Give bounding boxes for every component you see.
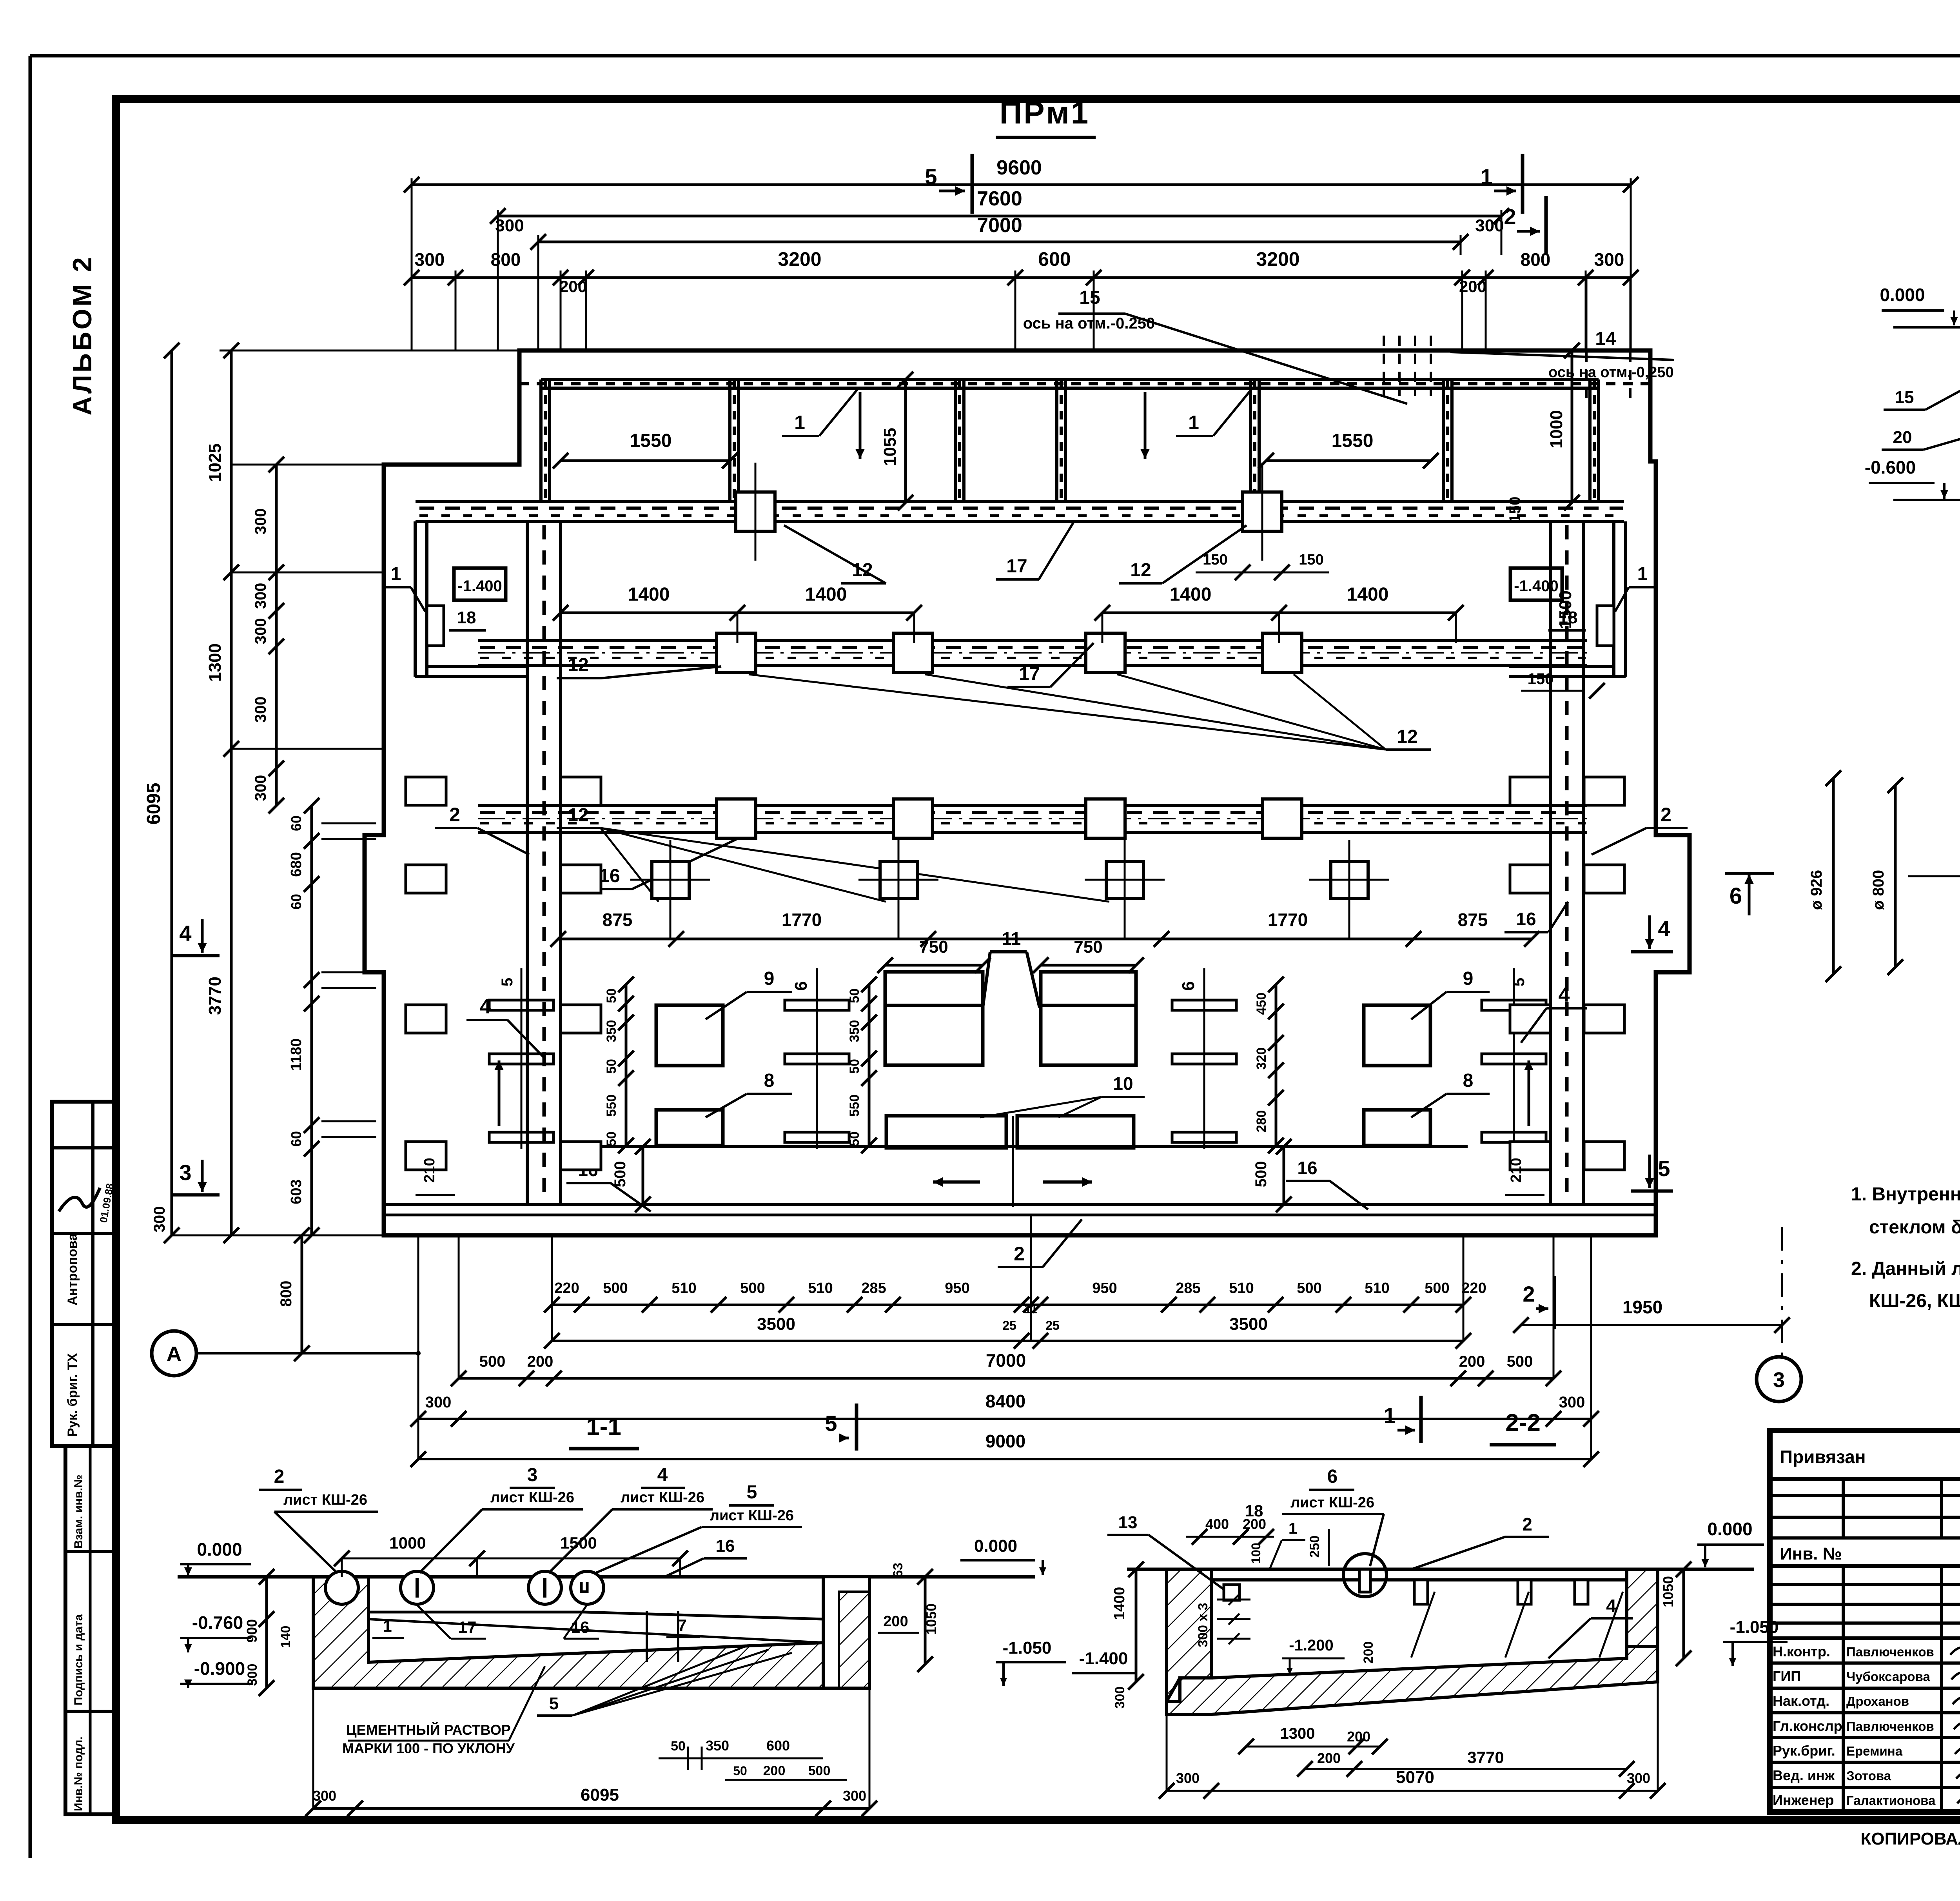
sec22 top slab xyxy=(1211,1578,1627,1581)
pit 10 right xyxy=(1017,1116,1134,1148)
svg-text:950: 950 xyxy=(945,1280,969,1296)
svg-text:320: 320 xyxy=(1254,1048,1269,1070)
bottom arrows xyxy=(933,1180,980,1184)
svg-text:600: 600 xyxy=(1038,248,1071,270)
svg-text:285: 285 xyxy=(861,1280,886,1296)
svg-text:0.000: 0.000 xyxy=(197,1539,242,1560)
right outer pilaster 1 xyxy=(1584,777,1624,805)
axis circle A xyxy=(152,1331,196,1376)
svg-text:КШ-26, КШ-27.: КШ-26, КШ-27. xyxy=(1869,1291,1960,1311)
svg-text:200: 200 xyxy=(527,1353,554,1370)
svg-text:300: 300 xyxy=(1559,1394,1585,1411)
axis dashed lines group 14 xyxy=(1586,279,1588,352)
title row inv xyxy=(1770,1564,1960,1568)
axis circle 3 xyxy=(1757,1357,1801,1402)
svg-text:800: 800 xyxy=(491,249,521,270)
sec66 top ext lines xyxy=(1893,326,1960,329)
svg-text:1770: 1770 xyxy=(782,910,822,930)
sec11 pipe circle 4 xyxy=(571,1571,604,1604)
svg-text:1500: 1500 xyxy=(560,1534,597,1552)
svg-text:500: 500 xyxy=(740,1280,765,1296)
svg-text:300: 300 xyxy=(151,1206,168,1233)
left stamp lower box xyxy=(65,1446,116,1814)
sec22 left wall xyxy=(1167,1569,1211,1701)
svg-text:1: 1 xyxy=(1383,1403,1396,1428)
dim 750 left xyxy=(885,964,983,967)
svg-text:Зотова: Зотова xyxy=(1846,1768,1891,1783)
svg-text:50: 50 xyxy=(604,1131,619,1146)
svg-text:Рук. бриг. ТХ: Рук. бриг. ТХ xyxy=(65,1353,80,1437)
svg-text:ГИП: ГИП xyxy=(1773,1668,1801,1684)
right outer pilaster 3 xyxy=(1584,1005,1624,1033)
bottom row 9000 xyxy=(418,1458,1591,1460)
svg-text:100: 100 xyxy=(1249,1543,1263,1563)
title row privyazan xyxy=(1770,1477,1960,1481)
svg-text:2: 2 xyxy=(1661,804,1671,826)
right outer pilaster 2 xyxy=(1584,865,1624,893)
svg-text:Инженер: Инженер xyxy=(1773,1792,1834,1808)
svg-text:900: 900 xyxy=(244,1619,260,1643)
title name row Рук.бриг. xyxy=(1770,1761,1960,1764)
svg-text:7000: 7000 xyxy=(986,1350,1026,1371)
title table outer xyxy=(1770,1431,1960,1812)
svg-text:50: 50 xyxy=(733,1764,747,1778)
svg-text:150: 150 xyxy=(1299,552,1323,568)
svg-text:200: 200 xyxy=(1361,1641,1376,1664)
bay top wall lines xyxy=(541,378,1599,381)
svg-text:300: 300 xyxy=(252,697,269,723)
svg-text:875: 875 xyxy=(1458,910,1488,930)
pit dim chain right xyxy=(1275,984,1278,1146)
dim 7000 xyxy=(538,241,1461,243)
svg-text:200: 200 xyxy=(1459,1353,1485,1370)
svg-text:20: 20 xyxy=(1893,428,1912,447)
svg-text:17: 17 xyxy=(1019,664,1040,685)
svg-text:1400: 1400 xyxy=(628,584,670,605)
bay wall vertical 7 xyxy=(1588,379,1592,503)
title thin rows b xyxy=(1770,1583,1960,1586)
svg-text:Нак.отд.: Нак.отд. xyxy=(1773,1693,1829,1709)
axis dashed lines group 15 xyxy=(1383,336,1385,396)
dim 875-1770 row xyxy=(558,938,1532,941)
svg-text:6: 6 xyxy=(1179,981,1198,991)
dim 1950 xyxy=(1521,1324,1782,1326)
svg-text:280: 280 xyxy=(1254,1110,1269,1133)
svg-text:1000: 1000 xyxy=(389,1534,426,1552)
svg-text:Еремина: Еремина xyxy=(1846,1744,1903,1758)
svg-text:5: 5 xyxy=(747,1482,757,1503)
svg-text:603: 603 xyxy=(288,1179,305,1204)
svg-text:4: 4 xyxy=(179,921,191,946)
left outer pilaster 2 xyxy=(406,865,446,893)
svg-text:1000: 1000 xyxy=(1547,410,1566,448)
svg-text:1: 1 xyxy=(391,564,401,585)
svg-text:11: 11 xyxy=(1002,928,1021,949)
fom8 crosshair xyxy=(1908,875,1960,877)
dim 750 right xyxy=(1041,964,1136,967)
sec11 pipe circle 1 xyxy=(325,1571,358,1604)
svg-text:300: 300 xyxy=(1112,1687,1127,1709)
svg-text:200: 200 xyxy=(1317,1750,1341,1766)
svg-text:1400: 1400 xyxy=(805,584,847,605)
svg-text:2: 2 xyxy=(449,804,460,826)
sec22 dim 400 200 xyxy=(1186,1536,1274,1538)
svg-text:-0.600: -0.600 xyxy=(1865,457,1916,478)
svg-text:2: 2 xyxy=(1014,1243,1025,1265)
svg-text:2: 2 xyxy=(1522,1514,1532,1534)
svg-text:50: 50 xyxy=(847,1059,862,1074)
svg-text:КОПИРОВАЛ :: КОПИРОВАЛ : xyxy=(1861,1829,1960,1848)
svg-text:ось на отм.-0.250: ось на отм.-0.250 xyxy=(1023,315,1155,332)
svg-text:18: 18 xyxy=(1245,1502,1263,1520)
right room walls xyxy=(1612,521,1615,677)
wall band 2 xyxy=(478,639,1587,642)
left chain 1 xyxy=(230,350,233,1235)
pit 9 left xyxy=(656,1005,723,1066)
svg-text:ø 800: ø 800 xyxy=(1870,870,1887,910)
svg-text:800: 800 xyxy=(278,1281,295,1307)
svg-text:0.000: 0.000 xyxy=(1707,1519,1752,1539)
title bottom xyxy=(1770,1810,1960,1814)
left wall pilaster 2 xyxy=(561,865,601,893)
bottom row 8400 xyxy=(418,1418,1591,1420)
band2 columns xyxy=(717,633,756,672)
dim 1550 right xyxy=(1266,459,1431,462)
svg-text:-0.900: -0.900 xyxy=(194,1658,245,1679)
svg-text:1770: 1770 xyxy=(1268,910,1308,930)
svg-text:5: 5 xyxy=(925,164,937,189)
dim 800 left bottom xyxy=(301,1235,303,1353)
svg-text:12: 12 xyxy=(568,655,588,675)
svg-text:лист КШ-26: лист КШ-26 xyxy=(621,1489,704,1506)
svg-text:300: 300 xyxy=(1594,249,1624,270)
svg-text:0.000: 0.000 xyxy=(1880,285,1925,305)
svg-text:140: 140 xyxy=(278,1626,293,1648)
svg-text:6: 6 xyxy=(1730,883,1742,909)
svg-text:300: 300 xyxy=(415,249,445,270)
bay wall vertical 3 xyxy=(954,379,957,503)
svg-text:лист КШ-26: лист КШ-26 xyxy=(283,1492,367,1508)
dim 1550 left xyxy=(561,459,730,462)
svg-text:4: 4 xyxy=(1559,984,1570,1006)
svg-text:50: 50 xyxy=(847,988,862,1003)
dim 1055 xyxy=(904,379,907,503)
svg-text:Павлюченков: Павлюченков xyxy=(1846,1645,1934,1659)
svg-text:50: 50 xyxy=(604,1059,619,1074)
svg-text:500: 500 xyxy=(1507,1353,1533,1370)
bottom chain row xyxy=(552,1304,1463,1306)
svg-text:1: 1 xyxy=(383,1617,392,1635)
pad 18 left xyxy=(427,606,444,646)
svg-text:18: 18 xyxy=(457,608,476,627)
svg-text:550: 550 xyxy=(847,1095,862,1117)
svg-text:300: 300 xyxy=(252,508,269,535)
dim row 300-800-200-3200-600-3200-200-800-300 xyxy=(412,276,1631,279)
svg-text:1: 1 xyxy=(1289,1520,1297,1537)
svg-text:750: 750 xyxy=(1074,937,1102,957)
crossed columns row xyxy=(652,861,689,899)
svg-text:300: 300 xyxy=(252,775,269,801)
svg-text:1: 1 xyxy=(1480,164,1492,189)
bottom ext lines xyxy=(417,1235,419,1459)
svg-text:60: 60 xyxy=(288,1131,304,1147)
svg-text:16: 16 xyxy=(1297,1158,1317,1178)
svg-text:1180: 1180 xyxy=(288,1039,305,1071)
sec22 bottom dims xyxy=(1246,1746,1380,1748)
title name row Н.контр. xyxy=(1770,1661,1960,1665)
title verticals xyxy=(1842,1479,1845,1538)
svg-text:Вед. инж: Вед. инж xyxy=(1773,1767,1835,1783)
svg-text:220: 220 xyxy=(554,1280,579,1296)
svg-text:МАРКИ 100 - ПО УКЛОНУ: МАРКИ 100 - ПО УКЛОНУ xyxy=(342,1740,515,1756)
svg-text:510: 510 xyxy=(808,1280,833,1296)
svg-text:50: 50 xyxy=(847,1131,862,1146)
outer border frame xyxy=(30,54,1960,58)
plan outer outline xyxy=(365,350,1690,1235)
sec11 body hatched left wall xyxy=(313,1577,869,1688)
svg-text:3770: 3770 xyxy=(205,977,225,1015)
svg-text:16: 16 xyxy=(571,1618,590,1636)
stamp signature xyxy=(59,1188,100,1211)
svg-text:Чубоксарова: Чубоксарова xyxy=(1846,1669,1930,1684)
svg-text:550: 550 xyxy=(604,1095,619,1117)
svg-text:750: 750 xyxy=(919,937,948,957)
svg-text:2: 2 xyxy=(1523,1282,1535,1306)
svg-text:Н.контр.: Н.контр. xyxy=(1773,1643,1830,1660)
bay arrow left xyxy=(859,392,862,459)
svg-text:17: 17 xyxy=(458,1618,477,1636)
svg-text:1: 1 xyxy=(1637,564,1648,585)
svg-text:3770: 3770 xyxy=(1467,1748,1504,1767)
svg-text:60: 60 xyxy=(288,815,304,831)
svg-text:12: 12 xyxy=(1130,560,1151,581)
svg-text:А: А xyxy=(167,1342,182,1366)
sec11 bottom dims xyxy=(659,1758,823,1759)
svg-text:300: 300 xyxy=(843,1788,866,1804)
svg-text:50: 50 xyxy=(604,988,619,1003)
svg-text:1300: 1300 xyxy=(1280,1725,1315,1742)
svg-text:300: 300 xyxy=(252,618,269,645)
svg-text:5: 5 xyxy=(1510,978,1528,986)
svg-text:4: 4 xyxy=(1658,916,1670,941)
svg-text:25: 25 xyxy=(1045,1318,1060,1333)
right outer pilaster 4 xyxy=(1584,1142,1624,1170)
right wall pilaster 2 xyxy=(1510,865,1550,893)
left wall pilaster 3 xyxy=(561,1005,601,1033)
pit 750 left xyxy=(885,972,983,1065)
svg-text:220: 220 xyxy=(1461,1280,1486,1296)
svg-text:350: 350 xyxy=(847,1020,862,1042)
svg-text:3200: 3200 xyxy=(1256,248,1299,270)
band3 columns xyxy=(717,799,756,838)
svg-text:1: 1 xyxy=(794,412,805,434)
svg-text:6095: 6095 xyxy=(143,783,164,825)
svg-text:5: 5 xyxy=(549,1694,559,1713)
svg-text:600: 600 xyxy=(766,1738,790,1754)
svg-text:1300: 1300 xyxy=(205,643,225,682)
pad 18 right xyxy=(1597,606,1614,646)
svg-text:16: 16 xyxy=(1516,909,1536,929)
right wall pilaster 3 xyxy=(1510,1005,1550,1033)
svg-text:8: 8 xyxy=(764,1070,775,1091)
extension lines top dims xyxy=(411,178,413,350)
pit 10 left xyxy=(886,1116,1006,1148)
svg-text:1400: 1400 xyxy=(1347,584,1389,605)
svg-text:1: 1 xyxy=(1188,412,1199,434)
svg-text:9: 9 xyxy=(1463,968,1474,989)
svg-text:Антропова: Антропова xyxy=(65,1233,80,1305)
svg-text:Взам. инв.№: Взам. инв.№ xyxy=(72,1474,85,1549)
svg-text:510: 510 xyxy=(671,1280,696,1296)
svg-text:150: 150 xyxy=(1528,670,1554,688)
svg-text:14: 14 xyxy=(1595,329,1616,349)
svg-text:Рук.бриг.: Рук.бриг. xyxy=(1773,1743,1835,1759)
svg-text:Павлюченков: Павлюченков xyxy=(1846,1719,1934,1734)
svg-text:3: 3 xyxy=(527,1465,538,1485)
pit 9 right xyxy=(1364,1005,1430,1066)
svg-text:2-2: 2-2 xyxy=(1505,1409,1541,1436)
svg-text:200: 200 xyxy=(883,1613,908,1630)
svg-text:2: 2 xyxy=(274,1466,285,1487)
sec11 pipe circle 3 xyxy=(528,1571,561,1604)
svg-text:ø 926: ø 926 xyxy=(1808,870,1825,910)
svg-text:3: 3 xyxy=(1773,1368,1785,1392)
sec11 ground line xyxy=(178,1575,1035,1579)
svg-text:950: 950 xyxy=(1092,1280,1117,1296)
svg-text:15: 15 xyxy=(1079,287,1100,308)
svg-text:60: 60 xyxy=(288,894,304,910)
svg-text:200: 200 xyxy=(559,277,587,296)
sec11 right block xyxy=(823,1577,869,1688)
title thin rows a xyxy=(1770,1494,1960,1497)
svg-text:9: 9 xyxy=(764,968,775,989)
svg-text:Галактионова: Галактионова xyxy=(1846,1793,1936,1808)
svg-text:500: 500 xyxy=(808,1763,831,1778)
pit 8 right xyxy=(1364,1110,1430,1146)
svg-text:250: 250 xyxy=(1307,1536,1322,1558)
svg-text:-1.400: -1.400 xyxy=(1079,1649,1128,1668)
svg-text:ПРм1: ПРм1 xyxy=(1000,95,1090,130)
svg-text:300: 300 xyxy=(313,1788,336,1804)
svg-text:285: 285 xyxy=(1176,1280,1200,1296)
bottom row 3500 xyxy=(552,1340,1463,1342)
bottom band xyxy=(384,1203,1656,1206)
sec22 detail circle xyxy=(1343,1554,1387,1597)
dim 1400 row xyxy=(561,612,914,614)
svg-text:510: 510 xyxy=(1229,1280,1254,1296)
svg-text:0.000: 0.000 xyxy=(974,1536,1017,1556)
sec11 dim 1000 1500 xyxy=(342,1558,680,1560)
svg-text:25: 25 xyxy=(1002,1318,1016,1333)
bottom row 7000 xyxy=(459,1377,1553,1380)
svg-text:300: 300 xyxy=(495,216,524,235)
left chain 300s xyxy=(275,465,278,806)
left stamp upper box xyxy=(52,1102,116,1446)
svg-text:-1.050: -1.050 xyxy=(1003,1638,1052,1658)
svg-text:300: 300 xyxy=(425,1394,452,1411)
svg-text:5: 5 xyxy=(1658,1156,1670,1181)
svg-text:7600: 7600 xyxy=(977,187,1022,210)
svg-text:2. Данный лист смотреть со: 2. Данный лист смотреть совместно с лист… xyxy=(1851,1258,1960,1279)
svg-text:4: 4 xyxy=(657,1465,668,1485)
bay wall vertical 4 xyxy=(1055,379,1058,503)
level box -1.400 left xyxy=(454,568,506,600)
dim 9600 xyxy=(412,183,1631,186)
svg-text:400: 400 xyxy=(1205,1516,1229,1532)
svg-text:15: 15 xyxy=(1895,388,1914,407)
pit 8 left xyxy=(656,1110,723,1146)
svg-text:350: 350 xyxy=(604,1020,619,1042)
svg-text:8400: 8400 xyxy=(985,1391,1025,1411)
svg-text:Привязан: Привязан xyxy=(1780,1447,1866,1467)
svg-text:12: 12 xyxy=(568,805,588,826)
left room walls xyxy=(414,521,417,677)
bars group right wall xyxy=(1482,1000,1546,1010)
svg-text:63: 63 xyxy=(891,1563,906,1578)
left small marks xyxy=(321,822,376,824)
svg-text:3500: 3500 xyxy=(1229,1315,1268,1334)
svg-text:6095: 6095 xyxy=(581,1785,619,1805)
sec22 pins xyxy=(1414,1580,1428,1604)
left outer pilaster 4 xyxy=(406,1142,446,1170)
band1 column left xyxy=(736,492,775,531)
svg-text:9000: 9000 xyxy=(985,1431,1025,1451)
wall band 3 xyxy=(478,804,1587,807)
svg-text:300: 300 xyxy=(1627,1770,1650,1786)
sec11 dim 900 140 xyxy=(265,1577,268,1688)
sec22 inner square xyxy=(1224,1585,1240,1600)
svg-text:1. Внутренние поверхност: 1. Внутренние поверхности ПРм1 покрасить… xyxy=(1851,1184,1960,1205)
svg-text:17: 17 xyxy=(1006,556,1027,577)
left ext lines xyxy=(231,464,519,466)
svg-text:300: 300 xyxy=(245,1664,260,1686)
left inner wall xyxy=(526,521,529,1204)
sec22 ground line xyxy=(1127,1568,1754,1571)
bars group left xyxy=(785,1000,849,1010)
svg-text:-1.200: -1.200 xyxy=(1289,1637,1333,1654)
svg-text:450: 450 xyxy=(1254,993,1269,1015)
svg-text:Инв.№ подл.: Инв.№ подл. xyxy=(72,1736,85,1811)
bay wall vertical 5 xyxy=(1249,379,1252,503)
svg-text:350: 350 xyxy=(706,1738,729,1754)
left chain 60s xyxy=(310,806,313,1235)
svg-text:12: 12 xyxy=(1397,726,1417,747)
svg-text:500: 500 xyxy=(603,1280,628,1296)
bay wall vertical 6 xyxy=(1442,379,1445,503)
fom8 dim 926 xyxy=(1832,778,1835,974)
dim 7600 xyxy=(498,215,1501,218)
svg-text:-1.400: -1.400 xyxy=(457,577,502,595)
svg-text:2: 2 xyxy=(1504,204,1516,229)
svg-text:16: 16 xyxy=(716,1536,735,1556)
pit dim chain 2 xyxy=(868,984,871,1146)
svg-text:300: 300 xyxy=(1475,216,1504,235)
floor line xyxy=(561,1145,1468,1148)
svg-text:300: 300 xyxy=(1176,1770,1200,1786)
svg-text:210: 210 xyxy=(421,1158,438,1182)
svg-text:500: 500 xyxy=(1425,1280,1449,1296)
left wall pilaster 4 xyxy=(561,1142,601,1170)
svg-text:500: 500 xyxy=(1297,1280,1321,1296)
svg-text:лист КШ-26: лист КШ-26 xyxy=(1290,1494,1374,1511)
left outer pilaster 3 xyxy=(406,1005,446,1033)
pit 750 right xyxy=(1041,972,1136,1065)
svg-text:5070: 5070 xyxy=(1396,1768,1434,1787)
svg-text:10: 10 xyxy=(1113,1073,1133,1094)
svg-text:200: 200 xyxy=(763,1763,786,1778)
svg-text:1950: 1950 xyxy=(1622,1297,1662,1317)
svg-text:1550: 1550 xyxy=(630,430,672,451)
